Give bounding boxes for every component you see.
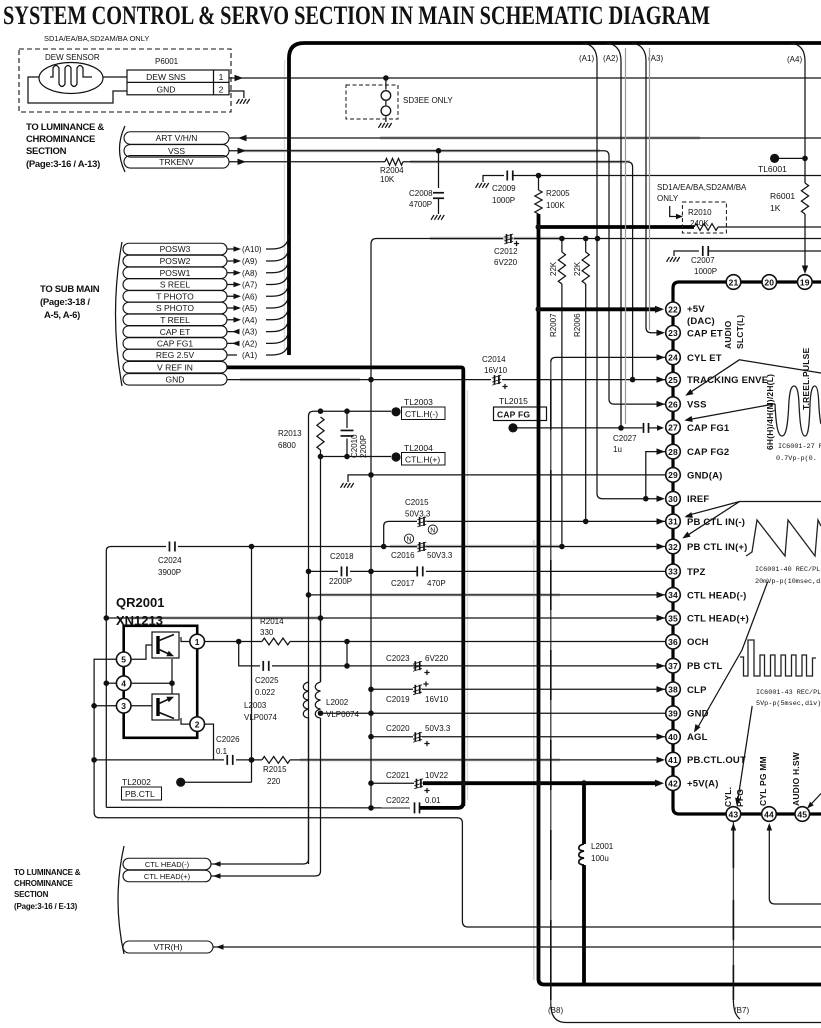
resistor R2010 in dashed box: [682, 202, 726, 233]
QR2001 pin 1: [190, 634, 205, 649]
sheet border bottom: [551, 1004, 821, 1023]
svg-text:PB CTL IN(-): PB CTL IN(-): [687, 517, 745, 528]
transistor Q1 (upper): [152, 632, 179, 658]
svg-text:32: 32: [668, 542, 678, 552]
svg-text:GND: GND: [166, 375, 185, 385]
svg-text:SLCT(L): SLCT(L): [735, 315, 745, 349]
svg-text:R6001: R6001: [770, 191, 795, 201]
svg-text:22K: 22K: [549, 261, 558, 276]
svg-text:(Page:3-18 /: (Page:3-18 /: [40, 297, 90, 308]
svg-text:CTL HEAD(+): CTL HEAD(+): [144, 872, 191, 881]
svg-text:GND(A): GND(A): [687, 470, 723, 481]
wire CTL.H(+) net: [321, 456, 392, 458]
connector ART V/H/N: [124, 132, 229, 145]
ground at C2009: [476, 183, 489, 188]
svg-text:GND: GND: [157, 84, 176, 94]
svg-text:1K: 1K: [770, 203, 781, 213]
wire PB.CTL loop to right side: [457, 818, 821, 927]
test point TL2002: [185, 781, 252, 783]
connector CAP FG1: [123, 338, 227, 350]
IC pin 42 +5V(A): [666, 776, 681, 791]
test point TL2003: [391, 407, 400, 416]
wire C2007 net to right edge: [709, 250, 821, 252]
wire pin32 PB CTL IN(+) net from C2024: [106, 547, 166, 808]
wire T PHOTO to bus: [227, 282, 289, 296]
svg-text:VTR(H): VTR(H): [154, 942, 183, 952]
IC pin 32 PB CTL IN(+): [666, 539, 681, 554]
svg-text:(A3): (A3): [648, 54, 663, 63]
svg-text:5Vp-p(5msec,div): 5Vp-p(5msec,div): [756, 700, 821, 708]
IC pin 37 PB CTL: [666, 658, 681, 673]
svg-text:A-5, A-6): A-5, A-6): [44, 310, 80, 321]
resistor R2006: [585, 239, 587, 253]
test point TL6001: [770, 154, 779, 163]
wire CAP ET to bus: [227, 318, 289, 332]
svg-text:CYL.: CYL.: [723, 787, 733, 807]
svg-text:T REEL: T REEL: [160, 315, 190, 325]
svg-text:C2007: C2007: [691, 256, 715, 265]
svg-text:33: 33: [668, 567, 678, 577]
inductor L2001 net thick: [582, 783, 586, 844]
wire gray artifact near A3: [649, 48, 651, 330]
capacitor C2007: [702, 246, 704, 256]
svg-text:QR2001: QR2001: [116, 595, 164, 610]
wire REG 2.5V to bus: [227, 341, 289, 355]
svg-text:AUDIO: AUDIO: [723, 320, 733, 349]
svg-text:CTL HEAD(+): CTL HEAD(+): [687, 614, 749, 625]
wire C2014 line arrows: [657, 354, 666, 360]
wire OCH-PBCTL link: [346, 642, 348, 666]
connector VSS: [124, 145, 229, 158]
wire TRKENV net to pin25 line: [403, 162, 633, 380]
wire CTL.H(-) net: [309, 411, 392, 864]
wire dew sensor to pin1: [103, 76, 127, 78]
svg-text:0.01: 0.01: [425, 796, 441, 805]
svg-text:C2015: C2015: [405, 498, 429, 507]
IC pin 43 CYL PFG: [726, 807, 741, 822]
wire C2009 net to right edge: [513, 175, 821, 177]
svg-text:CTL.H(-): CTL.H(-): [405, 409, 438, 419]
wire VSS net to pin 26: [229, 151, 665, 404]
svg-text:470P: 470P: [427, 579, 446, 588]
svg-text:CAP FG2: CAP FG2: [687, 447, 729, 458]
svg-text:21: 21: [729, 277, 739, 287]
IC pin 26 VSS: [666, 397, 681, 412]
pointer to pin 40 AGL: [696, 582, 768, 731]
svg-text:4: 4: [121, 679, 126, 689]
svg-text:POSW2: POSW2: [160, 256, 191, 266]
svg-text:16V10: 16V10: [484, 366, 508, 375]
capacitor C2018: [340, 566, 342, 576]
resistor R2015: [262, 757, 290, 764]
svg-text:6V220: 6V220: [494, 258, 518, 267]
svg-text:R2004: R2004: [380, 166, 404, 175]
svg-text:TO SUB MAIN: TO SUB MAIN: [40, 284, 100, 295]
wire QR pin1 OCH net: [205, 641, 263, 643]
svg-text:R2006: R2006: [573, 313, 582, 337]
svg-text:35: 35: [668, 613, 678, 623]
svg-text:28: 28: [668, 447, 678, 457]
svg-text:VLP0074: VLP0074: [326, 710, 359, 719]
wire QR pin3 to Q2: [131, 705, 152, 707]
IC pin 45 AUDIO H.SW: [795, 807, 810, 822]
connector S REEL: [123, 279, 227, 291]
connector CTL HEAD(+): [123, 870, 211, 882]
svg-text:CYL PG MM: CYL PG MM: [758, 756, 768, 806]
wire pin4 external: [106, 682, 116, 684]
wire +B thick to R2010: [537, 225, 695, 229]
inductor L2002: [315, 682, 320, 718]
svg-text:1000P: 1000P: [694, 267, 717, 276]
svg-text:L2001: L2001: [591, 842, 614, 851]
svg-text:20: 20: [764, 277, 774, 287]
svg-text:C2027: C2027: [613, 434, 637, 443]
connector VTR(H): [123, 941, 213, 953]
svg-text:VSS: VSS: [168, 146, 185, 156]
QR2001 pin 2: [190, 717, 205, 732]
wire pin35 CTL HEAD(+) net: [106, 617, 665, 619]
svg-text:PB CTL IN(+): PB CTL IN(+): [687, 542, 748, 553]
IC pin 20: [762, 275, 777, 290]
wire dew sensor left loop: [28, 77, 127, 103]
svg-text:220: 220: [267, 777, 281, 786]
svg-text:C2022: C2022: [386, 796, 410, 805]
connector POSW1: [123, 267, 227, 279]
connector SD3EE option: [346, 85, 398, 119]
svg-text:26: 26: [668, 399, 678, 409]
svg-text:TL2003: TL2003: [404, 397, 433, 407]
capacitor C2026: [226, 755, 228, 765]
svg-text:R2015: R2015: [263, 765, 287, 774]
wire pin 43 feed from (B7): [732, 822, 734, 1000]
wire S REEL to bus: [227, 271, 289, 285]
connector REG 2.5V: [123, 349, 227, 361]
svg-text:CHROMINANCE: CHROMINANCE: [14, 879, 74, 888]
polarity mark N C2016: [404, 534, 413, 543]
pointer to pin 27 CAP FG1: [687, 404, 776, 420]
IC pin 35 CTL HEAD(+): [666, 611, 681, 626]
svg-text:42: 42: [668, 779, 678, 789]
svg-text:CAP ET: CAP ET: [160, 327, 191, 337]
svg-text:C2026: C2026: [216, 735, 240, 744]
svg-text:(A5): (A5): [242, 304, 257, 313]
svg-text:R2014: R2014: [260, 617, 284, 626]
svg-text:30: 30: [668, 494, 678, 504]
svg-text:T.REEL.PULSE: T.REEL.PULSE: [801, 347, 811, 410]
svg-text:(A1): (A1): [242, 351, 257, 360]
connector CTL HEAD(-): [123, 858, 211, 870]
svg-text:C2025: C2025: [255, 676, 279, 685]
wire pin28 to pin30 link: [646, 452, 665, 499]
svg-text:(A9): (A9): [242, 257, 257, 266]
svg-text:DEW SENSOR: DEW SENSOR: [45, 53, 100, 62]
svg-text:0.7Vp-p(0.: 0.7Vp-p(0.: [776, 455, 817, 463]
wire branch (A1): [583, 43, 661, 499]
svg-text:+5V(A): +5V(A): [687, 779, 719, 790]
svg-text:+5V: +5V: [687, 304, 705, 315]
svg-text:2200P: 2200P: [329, 577, 352, 586]
wire pin31 PB CTL IN(-) net: [384, 521, 417, 546]
wire pin5 external: [94, 659, 457, 818]
resistor R2013: [317, 417, 324, 450]
brace for bottom connectors: [118, 846, 124, 954]
svg-text:31: 31: [668, 517, 678, 527]
svg-text:ART V/H/N: ART V/H/N: [156, 133, 198, 143]
capacitor C2014: [494, 375, 496, 384]
svg-text:TL2015: TL2015: [499, 396, 528, 406]
connector CAP ET: [123, 326, 227, 338]
scan artifact gray verticals: [533, 540, 535, 980]
capacitor C2021 on +5V(A): [371, 782, 414, 784]
svg-text:TO LUMINANCE &: TO LUMINANCE &: [14, 868, 81, 877]
svg-text:V REF IN: V REF IN: [157, 362, 193, 372]
svg-text:TL2004: TL2004: [404, 443, 433, 453]
svg-text:PB CTL: PB CTL: [687, 661, 723, 672]
wire POSW2 to bus: [227, 247, 289, 261]
svg-text:IREF: IREF: [687, 494, 709, 505]
connector V REF IN: [123, 361, 227, 373]
wire ART V/H/N net: [229, 137, 821, 139]
wire CYL ET from (B8): [550, 362, 552, 1004]
svg-text:(DAC): (DAC): [687, 316, 715, 327]
svg-text:25: 25: [668, 375, 678, 385]
svg-text:CAP FG1: CAP FG1: [157, 339, 193, 349]
svg-text:N: N: [406, 537, 411, 544]
wire 2.5V reg net corner: [371, 239, 503, 809]
IC pin 22 +5V: [666, 302, 681, 317]
svg-text:22: 22: [668, 305, 678, 315]
svg-text:50V3.3: 50V3.3: [427, 551, 453, 560]
QR2001 pin 4: [116, 676, 131, 691]
QR2001 pin 5: [116, 652, 131, 667]
svg-text:TPZ: TPZ: [687, 567, 706, 578]
resistor R6001: [801, 183, 808, 214]
waveform sawtooth at pins 31/32: [746, 520, 821, 556]
svg-text:2200P: 2200P: [359, 435, 368, 458]
wire DEW SNS net: [229, 77, 821, 79]
wire QR pin4 links: [131, 659, 172, 694]
svg-text:CAP FG1: CAP FG1: [687, 423, 730, 434]
capacitor C2025: [262, 661, 264, 671]
wire branch (A4): [791, 43, 805, 183]
svg-text:50V3.3: 50V3.3: [405, 510, 431, 519]
pointer to pin 43: [738, 706, 753, 802]
capacitor C2019 on CLP net: [371, 688, 413, 690]
wire T REEL to bus: [227, 306, 289, 320]
connector GND (sub main): [123, 374, 227, 386]
svg-text:C2024: C2024: [158, 556, 182, 565]
wire +5V(A) thick to pin 42: [423, 781, 659, 785]
svg-text:XN1213: XN1213: [116, 613, 163, 628]
svg-text:(Page:3-16 / E-13): (Page:3-16 / E-13): [14, 902, 78, 911]
wire CAP FG1 net: [513, 427, 643, 429]
svg-text:SD1A/EA/BA,SD2AM/BA: SD1A/EA/BA,SD2AM/BA: [657, 183, 747, 192]
wire QR pin2 external to C2026 net: [205, 724, 214, 760]
svg-text:27: 27: [668, 423, 678, 433]
svg-text:C2018: C2018: [330, 552, 354, 561]
capacitor C2024: [168, 542, 170, 552]
svg-text:TL2002: TL2002: [122, 777, 151, 787]
svg-text:DEW SNS: DEW SNS: [146, 72, 186, 82]
IC pin 34 CTL HEAD(-): [666, 588, 681, 603]
svg-text:(A2): (A2): [242, 339, 257, 348]
connector POSW3: [123, 243, 227, 255]
svg-text:(A4): (A4): [242, 316, 257, 325]
wire branch (A3): [632, 43, 661, 333]
svg-text:ONLY: ONLY: [657, 194, 679, 203]
svg-text:100u: 100u: [591, 854, 609, 863]
svg-text:(A3): (A3): [242, 328, 257, 337]
svg-text:(A8): (A8): [242, 269, 257, 278]
svg-text:C2012: C2012: [494, 247, 518, 256]
resistor R2004: [385, 158, 403, 165]
svg-text:(A7): (A7): [242, 281, 257, 290]
svg-text:R2010: R2010: [688, 208, 712, 217]
connector T PHOTO: [123, 291, 227, 303]
wire QR pin1 to Q1 collector: [181, 637, 190, 642]
capacitor C2027: [643, 423, 645, 433]
svg-text:2: 2: [195, 719, 200, 729]
IC pin 23 CAP ET: [666, 326, 681, 341]
wire pin41 PB.CTL.OUT net: [94, 759, 224, 761]
svg-text:C2008: C2008: [409, 189, 433, 198]
IC pin 25 TRACKING ENVE: [666, 372, 681, 387]
IC pin 21: [726, 275, 741, 290]
svg-text:36: 36: [668, 637, 678, 647]
svg-text:R2013: R2013: [278, 429, 302, 438]
svg-text:(Page:3-16 / A-13): (Page:3-16 / A-13): [26, 159, 100, 170]
svg-text:REG 2.5V: REG 2.5V: [156, 350, 195, 360]
wire POSW1 to bus: [227, 259, 289, 273]
ground at P6001 pin2: [229, 91, 244, 98]
svg-text:6V220: 6V220: [425, 654, 449, 663]
svg-text:(A1): (A1): [579, 54, 594, 63]
wire GND(A) to pin 29: [371, 474, 665, 476]
transistor array QR2001 XN1213 box: [124, 626, 198, 738]
polarity marks electrolytics: [514, 241, 519, 246]
svg-text:16V10: 16V10: [425, 695, 449, 704]
IC pin 30 IREF: [666, 491, 681, 506]
svg-text:VSS: VSS: [687, 400, 707, 411]
wire VTR(H) net: [213, 946, 821, 948]
capacitor C2008: [436, 148, 442, 154]
svg-text:CAP ET: CAP ET: [687, 328, 723, 339]
svg-text:20mVp-p(10msec,di: 20mVp-p(10msec,di: [755, 578, 821, 586]
svg-text:POSW1: POSW1: [160, 268, 191, 278]
IC pin 44 CYL PG MM: [762, 807, 777, 822]
svg-text:0.1: 0.1: [216, 747, 228, 756]
svg-text:S PHOTO: S PHOTO: [156, 303, 194, 313]
svg-text:1u: 1u: [613, 445, 622, 454]
wire C2025 branch: [239, 642, 260, 666]
svg-text:C2021: C2021: [386, 771, 410, 780]
svg-text:23: 23: [668, 328, 678, 338]
wire V REF IN thick to C-bank rail: [227, 367, 463, 806]
svg-text:CHROMINANCE: CHROMINANCE: [26, 134, 95, 145]
svg-text:45: 45: [797, 809, 807, 819]
svg-text:(A6): (A6): [242, 292, 257, 301]
wire top +B bus thick: [289, 43, 821, 355]
IC pin 28 CAP FG2: [666, 444, 681, 459]
connector T REEL: [123, 314, 227, 326]
svg-text:C2010: C2010: [350, 434, 359, 458]
IC pin 38 CLP: [666, 682, 681, 697]
wire GND/C2014 net to pin 25: [227, 379, 491, 381]
svg-text:1: 1: [219, 72, 224, 82]
connector TRKENV: [124, 156, 229, 169]
svg-text:6800: 6800: [278, 441, 296, 450]
capacitor C2020 on AGL net: [371, 736, 413, 738]
svg-text:C2017: C2017: [391, 579, 415, 588]
resistor R2005: [538, 176, 540, 191]
svg-text:R2007: R2007: [549, 313, 558, 337]
svg-text:PB.CTL: PB.CTL: [125, 789, 155, 799]
svg-text:IC6001-43 REC/PL: IC6001-43 REC/PL: [756, 689, 821, 697]
svg-text:SD1A/EA/BA,SD2AM/BA ONLY: SD1A/EA/BA,SD2AM/BA ONLY: [44, 34, 149, 43]
scan artifact gray smudges: [380, 136, 700, 139]
svg-text:SECTION: SECTION: [26, 146, 67, 157]
test point TL2004: [391, 452, 400, 461]
IC pin 29 GND(A): [666, 468, 681, 483]
svg-text:C2009: C2009: [492, 184, 516, 193]
svg-text:5: 5: [121, 655, 126, 665]
svg-text:22K: 22K: [573, 261, 582, 276]
wire arrow into R2010 box: [670, 206, 678, 217]
svg-text:SECTION: SECTION: [14, 890, 49, 899]
ground under C2008: [431, 215, 444, 220]
IC pin 36 OCH: [666, 634, 681, 649]
IC IC6001 boundary top segment pins 19-21: [673, 282, 821, 814]
capacitor C2009: [506, 171, 508, 181]
svg-text:CTL.H(+): CTL.H(+): [405, 455, 440, 465]
wire branch (A2): [607, 43, 621, 428]
svg-text:38: 38: [668, 685, 678, 695]
pointer line to pins 31/32: [687, 502, 821, 516]
wire R2013 net down to CTL HEAD(-) pill: [320, 457, 322, 683]
ground at GND(A) line: [348, 475, 371, 482]
brace for sub main connectors: [116, 242, 123, 386]
IC pin 39 GND: [666, 706, 681, 721]
svg-text:C2023: C2023: [386, 654, 410, 663]
wire gray artifact near A2: [625, 48, 627, 424]
wire C2024/TL2002 rail: [251, 547, 253, 783]
IC pin 31 PB CTL IN(-): [666, 514, 681, 529]
svg-text:CTL HEAD(-): CTL HEAD(-): [145, 860, 190, 869]
svg-text:C2020: C2020: [386, 724, 410, 733]
wire POSW3 to bus: [227, 235, 289, 249]
waveform pulse train at pin 43: [740, 640, 816, 676]
svg-text:240K: 240K: [690, 219, 709, 228]
svg-text:R2005: R2005: [546, 189, 570, 198]
svg-text:C2014: C2014: [482, 355, 506, 364]
wire C2022 thick to +5V(A): [420, 783, 463, 808]
svg-text:P6001: P6001: [155, 57, 179, 66]
wire R6001 to pin 19: [804, 214, 806, 271]
svg-text:0.022: 0.022: [255, 688, 276, 697]
svg-text:AGL: AGL: [687, 732, 708, 743]
svg-text:PB.CTL.OUT: PB.CTL.OUT: [687, 755, 746, 766]
brace for luminance connectors: [120, 126, 126, 172]
svg-text:19: 19: [800, 277, 810, 287]
resistor R2007: [561, 239, 563, 253]
capacitor C2015: [419, 517, 421, 526]
svg-text:10V22: 10V22: [425, 771, 449, 780]
wire pin 45 diagonal feed: [808, 794, 821, 808]
wire L2002 down to CTL HEAD(+): [211, 718, 321, 876]
QR2001 pin 3: [116, 699, 131, 714]
svg-text:L2002: L2002: [326, 698, 349, 707]
inductor L2003: [303, 682, 308, 718]
